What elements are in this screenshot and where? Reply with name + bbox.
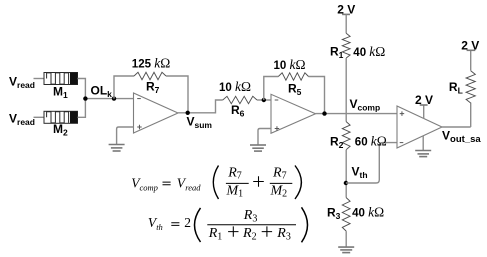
wire RL bottom — [470, 103, 472, 127]
wire R2 to R3 — [345, 150, 347, 198]
U3 ground stem — [422, 136, 424, 151]
resistor R6 — [223, 96, 257, 103]
svg-text:10 kΩ: 10 kΩ — [219, 79, 251, 94]
2V rail RL tick — [467, 49, 476, 51]
wire V_th to comparator minus — [346, 143, 397, 183]
svg-text:40 kΩ: 40 kΩ — [353, 44, 385, 59]
wire node OL_k to op-amp — [85, 98, 133, 100]
wire RL top to 2V — [470, 50, 472, 70]
wire R1 to R2 — [345, 58, 347, 122]
U2 minus sign — [275, 99, 279, 101]
svg-text:2 V: 2 V — [337, 3, 355, 17]
memristor M2 — [44, 111, 78, 123]
equation V_th — [148, 207, 308, 242]
wire feedback U2 left — [264, 77, 279, 101]
equation V_comp — [131, 165, 301, 199]
resistor R2 — [342, 122, 350, 150]
resistor R1 — [342, 33, 350, 58]
node OL_k junction dot — [83, 96, 87, 100]
wire R6 to U2 — [257, 99, 271, 101]
memristor M1 — [44, 73, 78, 85]
wire U1 plus input to ground — [117, 127, 134, 145]
wire 2V to R1 — [345, 14, 347, 33]
svg-text:2 V: 2 V — [461, 38, 479, 52]
svg-text:10 kΩ: 10 kΩ — [274, 57, 306, 72]
U3 2V supply tick — [420, 104, 428, 106]
V_sum junction dot — [186, 111, 190, 115]
ground R3 — [338, 247, 354, 253]
wire R3 to ground — [345, 231, 347, 247]
wire M1 to node — [78, 79, 86, 99]
ground U1 — [109, 145, 125, 152]
U1 plus sign — [137, 125, 142, 130]
op-amp U2 — [271, 94, 316, 133]
wire V_read1 lead — [34, 78, 45, 80]
svg-text:read: read — [185, 182, 201, 192]
wire U3 output — [442, 126, 471, 128]
U1 minus sign — [137, 98, 141, 100]
wire U2 plus input to ground — [258, 129, 271, 146]
svg-text:125 kΩ: 125 kΩ — [132, 55, 170, 70]
2V rail top tick — [342, 13, 350, 15]
wire feedback U1 left — [114, 76, 134, 99]
wire U2 output V_comp — [316, 113, 398, 115]
U2 input junction dot — [262, 98, 266, 102]
svg-text:comp: comp — [140, 182, 158, 192]
svg-text:2: 2 — [184, 215, 191, 230]
U2 plus sign — [275, 126, 280, 131]
V_th junction dot — [344, 181, 348, 185]
svg-text:40 kΩ: 40 kΩ — [352, 204, 384, 219]
wire U1 output — [178, 100, 223, 113]
svg-text:60 kΩ: 60 kΩ — [355, 133, 387, 148]
svg-text:2 V: 2 V — [415, 93, 433, 107]
wire M2 to node — [78, 99, 86, 118]
resistor R5 — [278, 73, 308, 80]
wire V_read2 lead — [34, 116, 45, 118]
V_comp junction dot — [322, 111, 326, 115]
wire feedback U1 right — [166, 76, 188, 113]
ground U3 — [415, 151, 431, 157]
op-amp U1 — [134, 93, 179, 133]
svg-text:th: th — [156, 222, 163, 232]
U3 plus sign — [400, 111, 405, 116]
U3 2V supply stem — [423, 105, 425, 119]
resistor R3 — [342, 198, 350, 232]
comparator U3 — [397, 106, 442, 148]
wire feedback U2 right — [309, 77, 325, 114]
node feedback junction dot — [112, 96, 116, 100]
resistor RL — [466, 71, 475, 103]
ground U2 — [250, 145, 266, 151]
U3 minus sign — [400, 142, 404, 144]
resistor R7 — [134, 72, 166, 79]
